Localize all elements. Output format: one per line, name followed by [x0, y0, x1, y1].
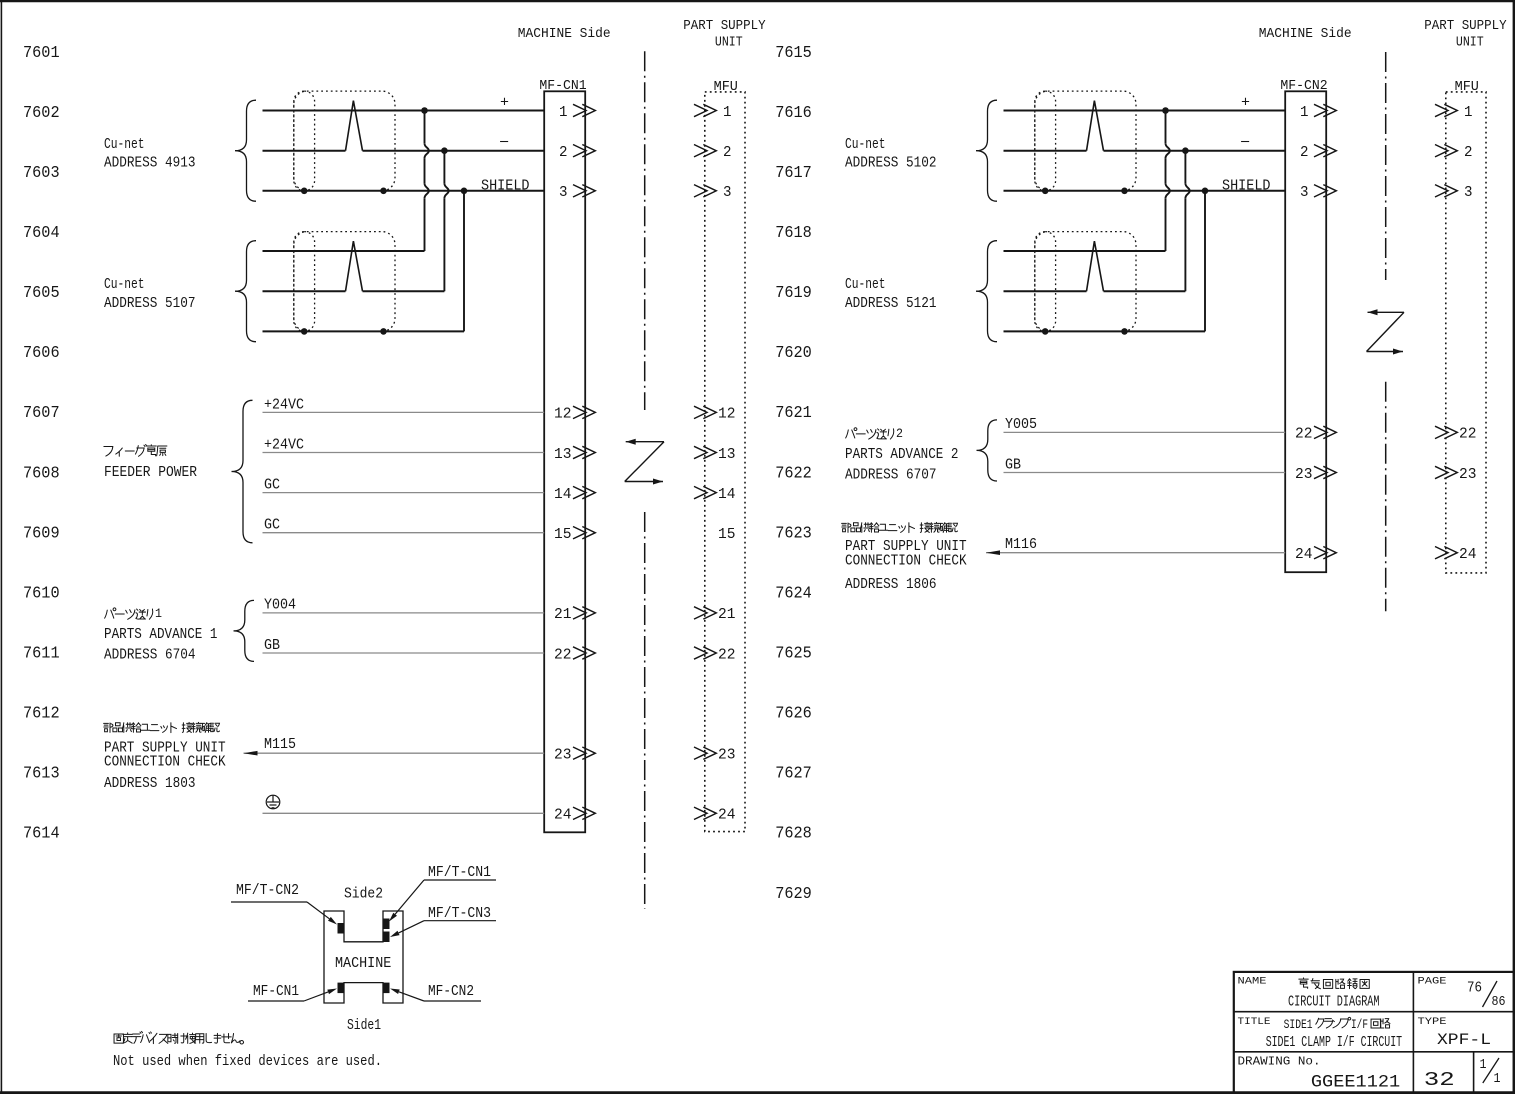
page border frame [0, 0, 1515, 2]
wire - (pin2) [1004, 150, 1087, 152]
svg-text:14: 14 [718, 486, 736, 503]
svg-text:12: 12 [718, 406, 736, 423]
vertical tie wire 3 [1204, 191, 1206, 332]
svg-text:3: 3 [559, 184, 568, 201]
svg-text:23: 23 [554, 747, 572, 764]
twist symbol [346, 101, 363, 151]
pin 12 MFU side [694, 406, 716, 418]
svg-text:CONNECTION CHECK: CONNECTION CHECK [845, 552, 967, 569]
svg-text:7605: 7605 [23, 284, 60, 302]
label feeder power (jp) [104, 446, 113, 456]
svg-text:7610: 7610 [23, 584, 60, 602]
pin 22 MFU side [1435, 426, 1457, 438]
svg-text:7622: 7622 [775, 464, 812, 482]
svg-text:MF/T-CN3: MF/T-CN3 [428, 905, 491, 922]
svg-text:7604: 7604 [23, 224, 60, 242]
svg-text:7620: 7620 [775, 344, 812, 362]
svg-text:ADDRESS 6707: ADDRESS 6707 [845, 466, 937, 483]
svg-text:TYPE: TYPE [1418, 1016, 1447, 1028]
svg-text:13: 13 [718, 446, 736, 463]
svg-text:21: 21 [718, 606, 736, 623]
connector mark MF-CN1 [338, 983, 345, 994]
pin 2 MFU side [1435, 145, 1457, 157]
svg-text:CONNECTION CHECK: CONNECTION CHECK [104, 753, 226, 770]
svg-text:15: 15 [554, 526, 572, 543]
svg-text:FEEDER POWER: FEEDER POWER [104, 464, 197, 481]
svg-text:2: 2 [723, 144, 732, 161]
boundary dash-dot line [644, 51, 646, 410]
svg-text:MACHINE: MACHINE [335, 955, 391, 972]
svg-text:MF-CN2: MF-CN2 [428, 983, 474, 1000]
svg-text:MF/T-CN1: MF/T-CN1 [428, 864, 491, 881]
boundary dash-dot line [1385, 52, 1387, 280]
svg-text:TITLE: TITLE [1238, 1016, 1271, 1028]
svg-text:2: 2 [1464, 144, 1473, 161]
wire + (pin1) [1004, 110, 1286, 112]
svg-text:14: 14 [554, 486, 572, 503]
svg-text:SIDE1 CLAMP I/F CIRCUIT: SIDE1 CLAMP I/F CIRCUIT [1266, 1034, 1402, 1051]
svg-text:ADDRESS 5107: ADDRESS 5107 [104, 295, 196, 312]
continuation symbol (Z with arrows) [625, 442, 664, 482]
pin 14 MFU side [694, 486, 716, 498]
svg-text:1: 1 [1480, 1057, 1487, 1073]
svg-text:2: 2 [1300, 144, 1309, 161]
svg-text:22: 22 [554, 646, 572, 663]
label parts advance 2 (jp) [846, 428, 857, 438]
cable shield outline (dotted) [1035, 91, 1136, 191]
brace [235, 241, 256, 342]
svg-text:+24VC: +24VC [264, 437, 304, 453]
protective earth symbol [266, 795, 280, 809]
svg-text:ADDRESS 5121: ADDRESS 5121 [845, 295, 937, 312]
wire cable B second [263, 290, 346, 292]
svg-text:7623: 7623 [775, 524, 812, 542]
svg-text:Y004: Y004 [264, 597, 296, 613]
cable cross-section capsule (dotted) [294, 91, 315, 191]
svg-text:ADDRESS 4913: ADDRESS 4913 [104, 155, 196, 172]
cable cross-section capsule (dotted) [1035, 91, 1056, 191]
connector mark MF-CN2 [383, 983, 390, 994]
svg-text:MACHINE Side: MACHINE Side [518, 26, 611, 42]
vertical tie wire 1 [424, 111, 426, 144]
svg-text:7609: 7609 [23, 524, 60, 542]
cable cross-section capsule (dotted) [294, 232, 315, 332]
svg-text:DRAWING No.: DRAWING No. [1238, 1055, 1321, 1069]
svg-text:MF/T-CN2: MF/T-CN2 [236, 882, 299, 899]
connector MFU box (dotted) [705, 92, 745, 832]
wire earth pin24 [263, 812, 545, 814]
svg-text:24: 24 [554, 807, 572, 824]
title block row lines [1234, 1011, 1514, 1013]
svg-text:21: 21 [554, 606, 572, 623]
pin 24 MFU side [694, 807, 716, 819]
vertical tie wire 3 [463, 191, 465, 332]
svg-text:24: 24 [1295, 546, 1313, 563]
svg-text:UNIT: UNIT [1456, 35, 1484, 51]
connector MF-CN box [1285, 91, 1326, 572]
twist symbol [1087, 241, 1104, 291]
svg-text:1: 1 [1464, 104, 1473, 121]
svg-text:3: 3 [1464, 184, 1473, 201]
svg-text:+: + [500, 94, 509, 111]
svg-text:Cu-net: Cu-net [845, 276, 886, 293]
junction dots [1162, 107, 1169, 114]
title block column lines [1412, 972, 1414, 1093]
svg-text:1: 1 [155, 606, 162, 621]
svg-text:7614: 7614 [23, 825, 60, 843]
wire SHIELD (pin3) [1004, 190, 1286, 192]
pin 13 MFU side [694, 446, 716, 458]
pin 3 MFU side [694, 185, 716, 197]
svg-text:MACHINE Side: MACHINE Side [1259, 26, 1352, 42]
svg-text:3: 3 [723, 184, 732, 201]
cable cross-section capsule (dotted) [1035, 232, 1056, 332]
brace parts advance 1 [234, 600, 255, 661]
svg-text:ADDRESS 6704: ADDRESS 6704 [104, 647, 196, 664]
svg-text:86: 86 [1492, 994, 1506, 1010]
brace parts advance 2 [977, 420, 998, 481]
svg-text:PART SUPPLY: PART SUPPLY [683, 18, 766, 34]
connector mark MF/T-CN1 [383, 919, 390, 930]
wire - (pin2) [263, 150, 346, 152]
brace [235, 100, 256, 201]
svg-text:M116: M116 [1005, 537, 1037, 553]
svg-text:ADDRESS 1803: ADDRESS 1803 [104, 775, 196, 792]
wire cable B shield [263, 330, 465, 332]
pin 2 MFU side [694, 145, 716, 157]
svg-text:Side1: Side1 [347, 1017, 381, 1034]
cable shield outline (dotted) [294, 91, 395, 191]
svg-text:24: 24 [1459, 546, 1477, 563]
svg-text:Cu-net: Cu-net [845, 136, 886, 153]
connector MFU box (dotted) [1446, 92, 1486, 573]
svg-text:23: 23 [718, 747, 736, 764]
wire cable B second [1004, 290, 1087, 292]
connector mark MF/T-CN2 [338, 923, 345, 934]
svg-text:7628: 7628 [775, 825, 812, 843]
svg-text:I/F: I/F [1351, 1017, 1368, 1032]
svg-text:7619: 7619 [775, 284, 812, 302]
svg-text:32: 32 [1424, 1069, 1455, 1091]
vertical tie wire 1 [1165, 111, 1167, 144]
svg-text:7625: 7625 [775, 645, 812, 663]
svg-text:2: 2 [559, 144, 568, 161]
svg-text:7611: 7611 [23, 645, 60, 663]
pin 1 MFU side [694, 104, 716, 116]
brace [976, 100, 997, 201]
svg-text:1: 1 [723, 104, 732, 121]
svg-text:7626: 7626 [775, 705, 812, 723]
svg-text:7607: 7607 [23, 404, 60, 422]
pin 21 MFU side [694, 607, 716, 619]
svg-text:24: 24 [718, 807, 736, 824]
twist symbol [346, 241, 363, 291]
brace [976, 241, 997, 342]
svg-text:1: 1 [1300, 104, 1309, 121]
pin 3 MFU side [1435, 185, 1457, 197]
title name japanese (circuit diagram) [1299, 978, 1308, 988]
svg-text:Cu-net: Cu-net [104, 276, 145, 293]
svg-text:MF-CN1: MF-CN1 [253, 983, 299, 1000]
connector MF-CN box [544, 91, 585, 832]
svg-text:−: − [1240, 134, 1250, 151]
svg-text:Cu-net: Cu-net [104, 136, 145, 153]
junction dots [421, 107, 428, 114]
svg-text:GB: GB [1005, 457, 1021, 473]
pin 23 MFU side [694, 747, 716, 759]
svg-text:7606: 7606 [23, 344, 60, 362]
svg-text:M115: M115 [264, 737, 296, 753]
cable shield outline (dotted) [294, 232, 395, 332]
vertical tie wire 2 [1184, 151, 1186, 184]
svg-text:GC: GC [264, 518, 280, 534]
vertical tie wire 2 [443, 151, 445, 184]
MACHINE block H-outline [324, 911, 403, 1003]
svg-text:7629: 7629 [775, 885, 812, 903]
svg-text:Y005: Y005 [1005, 417, 1037, 433]
svg-text:23: 23 [1295, 466, 1313, 483]
svg-text:12: 12 [554, 406, 572, 423]
label part supply unit connection check right (jp) [842, 523, 851, 532]
svg-text:7608: 7608 [23, 464, 60, 482]
svg-text:SHIELD: SHIELD [1222, 177, 1271, 194]
wire cable B first [263, 250, 425, 252]
svg-text:−: − [499, 134, 509, 151]
pin 24 MFU side [1435, 547, 1457, 559]
continuation symbol (Z with arrows) [1367, 312, 1405, 351]
wire + (pin1) [263, 110, 545, 112]
svg-text:15: 15 [718, 526, 736, 543]
note fixed devices (jp) [114, 1034, 123, 1043]
label parts advance 1 (jp) [105, 608, 116, 618]
svg-text:+: + [1241, 94, 1250, 111]
svg-text:1: 1 [559, 104, 568, 121]
svg-text:Side2: Side2 [344, 885, 383, 902]
svg-text:3: 3 [1300, 184, 1309, 201]
svg-text:SHIELD: SHIELD [481, 177, 530, 194]
svg-text:7618: 7618 [775, 224, 812, 242]
svg-text:7601: 7601 [23, 44, 60, 62]
pin 1 MFU side [1435, 104, 1457, 116]
svg-text:PARTS ADVANCE 2: PARTS ADVANCE 2 [845, 446, 959, 463]
svg-text:7612: 7612 [23, 705, 60, 723]
twist symbol [1087, 101, 1104, 151]
brace feeder power [232, 400, 253, 543]
svg-text:13: 13 [554, 446, 572, 463]
connector mark MF/T-CN3 [383, 932, 390, 943]
svg-text:PART SUPPLY: PART SUPPLY [1424, 18, 1507, 34]
svg-text:NAME: NAME [1238, 976, 1267, 988]
svg-text:22: 22 [1295, 426, 1313, 443]
svg-text:76: 76 [1467, 980, 1482, 997]
svg-text:+24VC: +24VC [264, 397, 304, 413]
wire cable B shield [1004, 330, 1206, 332]
svg-text:Not used when fixed devices ar: Not used when fixed devices are used. [113, 1053, 382, 1070]
svg-text:7613: 7613 [23, 765, 60, 783]
svg-text:UNIT: UNIT [715, 35, 743, 51]
svg-text:7627: 7627 [775, 765, 812, 783]
title block outer frame [1234, 972, 1514, 1093]
svg-text:1: 1 [1494, 1071, 1501, 1087]
svg-text:PARTS ADVANCE 1: PARTS ADVANCE 1 [104, 626, 218, 643]
svg-text:GGEE1121: GGEE1121 [1311, 1073, 1400, 1093]
svg-text:GB: GB [264, 638, 280, 654]
svg-text:22: 22 [1459, 426, 1477, 443]
wire SHIELD (pin3) [263, 190, 545, 192]
svg-text:CIRCUIT DIAGRAM: CIRCUIT DIAGRAM [1288, 994, 1380, 1011]
svg-text:XPF-L: XPF-L [1437, 1031, 1491, 1049]
wire cable B first [1004, 250, 1166, 252]
label part supply unit connection check (jp) [104, 723, 113, 732]
svg-text:22: 22 [718, 646, 736, 663]
pin 22 MFU side [694, 647, 716, 659]
cable shield outline (dotted) [1035, 232, 1136, 332]
svg-text:7616: 7616 [775, 104, 812, 122]
svg-text:7621: 7621 [775, 404, 812, 422]
svg-text:ADDRESS 5102: ADDRESS 5102 [845, 155, 937, 172]
svg-text:SIDE1: SIDE1 [1284, 1017, 1313, 1032]
svg-text:ADDRESS 1806: ADDRESS 1806 [845, 576, 937, 593]
svg-text:2: 2 [896, 426, 903, 441]
svg-text:7602: 7602 [23, 104, 60, 122]
pin 23 MFU side [1435, 466, 1457, 478]
svg-text:7624: 7624 [775, 584, 812, 602]
svg-text:GC: GC [264, 478, 280, 494]
svg-text:PAGE: PAGE [1418, 976, 1447, 988]
svg-text:7617: 7617 [775, 164, 812, 182]
svg-text:7615: 7615 [775, 44, 812, 62]
svg-text:7603: 7603 [23, 164, 60, 182]
svg-text:23: 23 [1459, 466, 1477, 483]
